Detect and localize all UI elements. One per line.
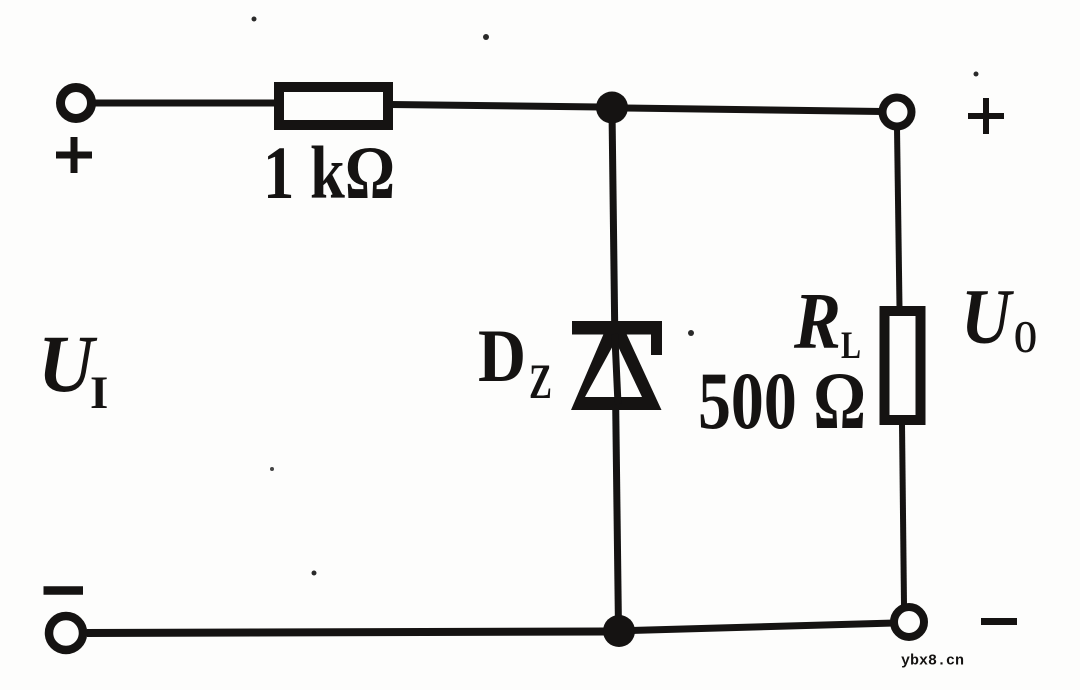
svg-text:ybx8.cn: ybx8.cn — [901, 653, 964, 670]
svg-text:D: D — [478, 315, 526, 398]
svg-text:U: U — [961, 273, 1014, 360]
svg-text:Z: Z — [529, 353, 552, 409]
svg-text:R: R — [793, 278, 841, 366]
svg-text:O: O — [1014, 312, 1037, 362]
svg-text:I: I — [90, 367, 108, 419]
svg-text:1 kΩ: 1 kΩ — [263, 132, 395, 215]
svg-text:U: U — [38, 318, 98, 409]
svg-text:500 Ω: 500 Ω — [698, 355, 866, 446]
